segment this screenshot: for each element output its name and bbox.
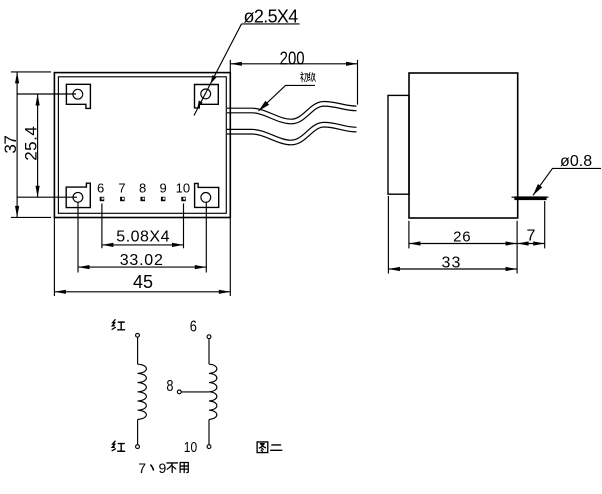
pin number labels xyxy=(97,181,190,196)
wire xyxy=(208,339,210,365)
svg-text:200: 200 xyxy=(280,48,305,69)
dimension 26 (body depth) xyxy=(409,221,517,249)
svg-text:33.02: 33.02 xyxy=(120,252,163,269)
callout leader ø2.5X4 (mounting holes) xyxy=(194,6,300,115)
mounting hole bottom-right xyxy=(201,193,211,203)
dimension 33.02 (hole spacing horizontal) xyxy=(78,202,206,272)
mounting tab top-left xyxy=(66,84,90,108)
dimension 7 (pin length) xyxy=(517,201,545,248)
center tap terminal xyxy=(177,390,181,394)
mounting hole top-right xyxy=(201,89,211,99)
dimension 37 (left overall height) xyxy=(1,72,51,218)
side view body xyxy=(409,73,518,218)
label 图二 (figure 2) xyxy=(257,442,282,453)
svg-text:25.4: 25.4 xyxy=(22,126,41,161)
mounting hole top-left xyxy=(73,89,83,99)
svg-text:7: 7 xyxy=(138,460,146,476)
svg-text:37: 37 xyxy=(1,135,20,154)
lead wire 1 (upper) xyxy=(227,104,357,122)
secondary winding terminal top xyxy=(207,335,211,339)
label 红 (red) bottom xyxy=(112,441,125,451)
svg-text:26: 26 xyxy=(453,229,471,246)
svg-text:10: 10 xyxy=(176,181,190,196)
svg-text:6: 6 xyxy=(190,318,197,336)
primary winding terminal bottom xyxy=(136,445,140,449)
dimension 45 (overall width) xyxy=(54,218,230,297)
mounting tab top-right xyxy=(195,85,219,108)
lead wire 2 (lower) xyxy=(227,125,357,143)
svg-text:33: 33 xyxy=(441,254,460,271)
svg-text:9: 9 xyxy=(159,460,167,476)
side view flange xyxy=(388,95,409,194)
svg-text:6: 6 xyxy=(97,181,104,196)
pin 7 pad xyxy=(120,197,125,201)
pin row (thick bar) xyxy=(512,196,549,200)
mounting tab bottom-left xyxy=(66,183,90,207)
primary winding terminal top xyxy=(136,333,140,337)
pin 10 pad xyxy=(181,197,186,201)
svg-text:7: 7 xyxy=(118,181,125,196)
wire xyxy=(137,419,139,444)
svg-text:7: 7 xyxy=(526,228,535,245)
dimension 200 (lead length) xyxy=(230,48,357,104)
label 初级 (primary) with leader xyxy=(259,72,316,111)
wire xyxy=(137,337,139,364)
pin 6 pad xyxy=(100,197,105,201)
svg-text:8: 8 xyxy=(139,181,146,196)
wire xyxy=(208,419,210,444)
pin 9 pad xyxy=(161,197,166,201)
secondary winding terminal bottom xyxy=(207,445,211,449)
mounting tab bottom-right xyxy=(195,183,219,207)
transformer body inner outline xyxy=(58,77,226,214)
svg-text:9: 9 xyxy=(159,181,166,196)
label 红 (red) top xyxy=(112,320,125,330)
pin 8 pad xyxy=(141,197,146,201)
svg-text:8: 8 xyxy=(166,378,173,396)
transformer body outer outline xyxy=(54,73,230,218)
dimension 33 (overall depth) xyxy=(388,196,517,274)
note 7、9不用 (7 and 9 unused) xyxy=(138,460,188,476)
svg-text:45: 45 xyxy=(133,272,153,292)
center tap wire xyxy=(181,391,209,393)
svg-text:ø2.5X4: ø2.5X4 xyxy=(244,6,299,26)
svg-text:10: 10 xyxy=(184,439,198,456)
svg-text:5.08X4: 5.08X4 xyxy=(116,229,169,246)
mounting hole bottom-left xyxy=(73,192,83,202)
dimension 25.4 (hole spacing vertical) xyxy=(17,94,77,197)
primary winding coil xyxy=(138,364,147,419)
secondary winding coil xyxy=(209,364,217,419)
callout leader ø0.8 (pin diameter) xyxy=(533,153,601,195)
dimension 5.08X4 (pin pitch) xyxy=(102,204,184,249)
svg-text:ø0.8: ø0.8 xyxy=(560,153,592,170)
